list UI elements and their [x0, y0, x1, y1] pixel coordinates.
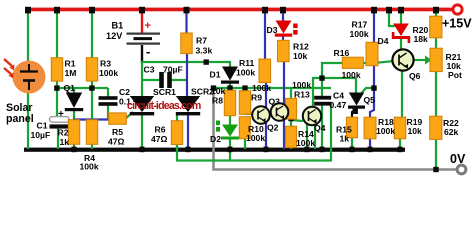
wire R7 bottom to SCR2 anode [186, 53, 188, 97]
svg-text:Pot: Pot [448, 70, 462, 80]
wire red +V bus [25, 8, 454, 12]
svg-text:R8: R8 [212, 96, 223, 106]
LED D3 [275, 21, 298, 37]
resistor R17 [366, 42, 378, 65]
wire D4 top [400, 9, 402, 24]
resistor R2 [68, 120, 79, 145]
wire solar panel bottom [27, 93, 29, 149]
svg-text:10k: 10k [293, 51, 308, 61]
resistor R16 [342, 57, 363, 68]
wire R13 top [290, 88, 292, 99]
wire D3 top blue [282, 9, 284, 21]
svg-text:10k: 10k [211, 86, 226, 96]
wire R20 to R21 [435, 37, 437, 49]
svg-text:100k: 100k [292, 80, 311, 90]
capacitor C2 [99, 96, 118, 106]
wire Q1 top [73, 88, 75, 93]
svg-text:62k: 62k [444, 127, 459, 137]
svg-text:Q5: Q5 [364, 95, 376, 105]
wire R21 to R22 [435, 71, 437, 117]
wire battery to SCR1 anode [141, 61, 143, 97]
wire R7 blue column [185, 9, 187, 34]
svg-text:Q4: Q4 [314, 123, 326, 133]
wire C1 bottom [57, 127, 59, 149]
svg-text:D1: D1 [210, 70, 221, 80]
wire node row mid y88 [213, 87, 331, 89]
wire R2 bottom [73, 144, 75, 149]
capacitor C4 [314, 96, 331, 106]
svg-text:0V: 0V [450, 152, 466, 166]
wire R16 left branch [322, 63, 343, 78]
wire green lower rail [177, 103, 331, 161]
svg-text:+15V: +15V [442, 17, 472, 31]
wire Q6 base from R17 node [374, 61, 394, 63]
wire C4 top [321, 78, 323, 97]
svg-text:100k: 100k [252, 83, 271, 93]
wire C4 bottom [321, 105, 323, 149]
svg-text:R6: R6 [155, 125, 166, 135]
wire R1 top [56, 9, 58, 58]
wire R6 bottom [176, 144, 178, 150]
svg-text:R11: R11 [239, 58, 255, 68]
terminal +15V [442, 5, 472, 31]
svg-text:47Ω: 47Ω [151, 134, 168, 144]
svg-text:3.3k: 3.3k [196, 46, 213, 56]
wire C2 top [107, 88, 109, 97]
wire D3 to R12 [282, 35, 284, 41]
resistor R20 [430, 16, 442, 38]
wire Q1 cathode [73, 110, 75, 120]
svg-text:+: + [145, 20, 151, 32]
wire C3 right [171, 79, 188, 81]
transistor Q6 [392, 49, 413, 70]
wire R16 right to R17 node [362, 62, 375, 64]
wire SCR1 cathode [141, 114, 143, 149]
svg-text:70µF: 70µF [163, 65, 183, 75]
svg-text:Q2: Q2 [267, 123, 279, 133]
svg-text:100k: 100k [376, 126, 395, 136]
capacitor C1 [50, 117, 70, 129]
transistor Q1 diode symbol [65, 93, 83, 112]
battery B1 [127, 34, 161, 44]
svg-text:R1: R1 [65, 59, 76, 69]
wire D2 cathode through bus [229, 137, 231, 160]
wire C2 bottom [107, 105, 109, 119]
svg-text:+: + [58, 109, 64, 120]
svg-text:0.47: 0.47 [330, 100, 347, 110]
svg-text:R2: R2 [58, 128, 69, 138]
svg-text:Q3: Q3 [269, 97, 281, 107]
node squares mid circuit [54, 59, 438, 172]
svg-text:R7: R7 [196, 36, 207, 46]
resistor R10 [239, 117, 250, 139]
resistor R14 [285, 126, 296, 147]
svg-text:R12: R12 [293, 42, 309, 52]
svg-text:R9: R9 [251, 93, 262, 103]
svg-text:100k: 100k [80, 162, 99, 172]
wire D1 cathode to node [229, 81, 231, 91]
wire SCR2 cathode blue [187, 114, 189, 149]
wire SCR2 gate to R6 [176, 114, 178, 121]
resistor R9 [239, 91, 250, 115]
svg-text:47Ω: 47Ω [108, 137, 125, 147]
wire R20 top [435, 9, 437, 17]
wire R5 gate diagonal to SCR1 [125, 112, 133, 119]
svg-text:C1: C1 [37, 121, 48, 131]
transistor Q2 [252, 106, 270, 124]
svg-text:Q1: Q1 [64, 83, 76, 93]
resistor R3 [86, 58, 97, 81]
svg-text:C3: C3 [144, 65, 155, 75]
diode D1 [221, 67, 239, 84]
wire R21 wiper arrowhead [425, 56, 432, 65]
zener D4 [392, 24, 410, 44]
thyristor SCR1 [130, 96, 154, 115]
svg-text:Q6: Q6 [409, 71, 421, 81]
svg-text:R16: R16 [334, 48, 350, 58]
resistor R4 [86, 120, 97, 145]
wire R12 bottom blue column [283, 61, 285, 149]
resistor R7 [181, 33, 192, 54]
wire node row left y88 [56, 87, 108, 89]
svg-text:B1: B1 [112, 21, 124, 31]
resistor R6 [171, 121, 182, 145]
wire R22 bottom to 0V rail [435, 138, 437, 170]
wire D2 anode [229, 115, 231, 125]
svg-text:1M: 1M [65, 68, 77, 78]
terminal 0V [450, 152, 466, 174]
resistor R19 [394, 117, 406, 139]
wire Q5 gate hook [362, 88, 375, 93]
wire R4 bottom [91, 144, 93, 149]
potentiometer R21 [430, 48, 442, 71]
wire R14 bottom [290, 147, 292, 149]
wire R18 bottom blue [369, 138, 371, 149]
svg-text:100k: 100k [236, 68, 255, 78]
wire R17 bottom blue to node [373, 65, 375, 90]
wire node row y78 [312, 77, 356, 79]
svg-text:D2: D2 [210, 134, 221, 144]
wire Q4 collector [312, 78, 314, 107]
svg-text:R17: R17 [352, 20, 368, 30]
transistor Q3 [271, 103, 289, 121]
wire R9 R10 node to Q2 base [245, 113, 254, 115]
wire R3 bottom [91, 81, 93, 119]
svg-text:100k: 100k [246, 133, 265, 143]
resistor R12 [278, 40, 290, 61]
wire R3 top [91, 9, 93, 58]
svg-text:12V: 12V [106, 31, 123, 41]
wire black ground bus [24, 148, 405, 152]
wire R13 R14 node to Q4 base [290, 118, 292, 127]
wire Q6 emitter down to R19 [401, 70, 403, 118]
resistor R11 [259, 59, 271, 83]
wire Q5 anode [355, 78, 357, 93]
svg-text:1k: 1k [340, 134, 350, 144]
svg-text:D4: D4 [378, 36, 389, 46]
wire R11 blue top [264, 9, 266, 60]
resistor R18 [364, 117, 376, 139]
wire R15 bottom [351, 137, 353, 149]
thyristor Q5 [348, 93, 365, 109]
svg-text:circuit-ideas.com: circuit-ideas.com [127, 100, 201, 112]
wire R1 bottom to C1 [56, 81, 58, 118]
wire C3 row y80 [142, 79, 161, 81]
svg-text:-: - [146, 44, 150, 59]
svg-text:1k: 1k [60, 137, 70, 147]
wire grey 0V rail [214, 88, 457, 170]
wire battery positive red [141, 9, 143, 33]
svg-text:R13: R13 [294, 90, 310, 100]
svg-text:D3: D3 [267, 25, 278, 35]
svg-text:100k: 100k [296, 138, 315, 148]
resistor R8 [224, 90, 235, 115]
svg-text:18k: 18k [414, 34, 429, 44]
wire R11 bottom blue column [265, 82, 267, 149]
wire R19 bottom [399, 138, 401, 149]
junction bus squares [25, 7, 439, 14]
resistor R22 [430, 116, 442, 139]
svg-text:SCR1: SCR1 [153, 87, 176, 97]
solar panel [4, 59, 46, 94]
wire D4 left stub [389, 9, 395, 26]
wire Q5 cathode to R15 [352, 107, 356, 118]
capacitor C3 [159, 72, 172, 88]
wire R17 top blue [373, 9, 375, 43]
resistor R15 [346, 117, 357, 138]
svg-text:100k: 100k [342, 70, 361, 80]
wire node row y62 [141, 61, 230, 63]
node squares on ground bus [72, 147, 403, 153]
resistor R1 [51, 58, 62, 81]
svg-text:R3: R3 [100, 59, 111, 69]
svg-text:10k: 10k [408, 126, 423, 136]
resistor R13 [285, 98, 296, 119]
svg-text:C4: C4 [333, 91, 344, 101]
wire solar panel top [27, 9, 29, 61]
wire node to R18 blue [370, 89, 374, 118]
thyristor SCR2 [176, 96, 200, 115]
LED D2 [216, 121, 239, 140]
wire battery negative black [141, 45, 143, 63]
svg-text:100k: 100k [350, 29, 369, 39]
svg-text:100k: 100k [99, 68, 118, 78]
resistor R5 [109, 113, 127, 124]
transistor Q4 [303, 107, 321, 125]
wire D1 anode [229, 61, 231, 67]
wire R10 bottom [244, 138, 246, 149]
wire Q4 leg right [314, 124, 316, 149]
svg-text:10µF: 10µF [31, 130, 51, 140]
wire Q4 emitter to ground [306, 123, 308, 149]
svg-text:panel: panel [6, 113, 34, 125]
svg-text:R5: R5 [112, 127, 123, 137]
wire D4 to Q6 [400, 38, 402, 50]
svg-text:C2: C2 [119, 87, 130, 97]
wire Q6 collector to R21 wiper [412, 59, 426, 61]
wire blue row y119 [73, 118, 110, 120]
